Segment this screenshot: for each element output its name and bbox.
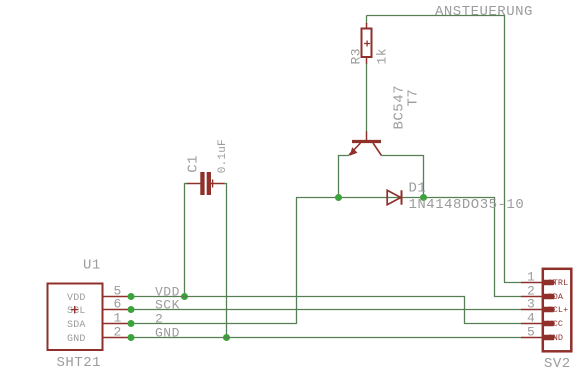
wire emitter to junction: [339, 156, 350, 198]
connector SV2 pin 3 stub: [521, 309, 543, 311]
svg-text:VCC: VCC: [548, 319, 564, 329]
resistor R3: [362, 23, 372, 64]
junction C1 VDD: [181, 293, 188, 300]
svg-text:GND: GND: [548, 333, 564, 343]
capacitor C1: [186, 172, 225, 195]
connector SV2 pin 1 stub: [521, 282, 543, 284]
svg-text:GND: GND: [155, 326, 180, 341]
svg-text:SCL+: SCL+: [548, 305, 569, 315]
svg-text:1k: 1k: [375, 48, 390, 65]
wire SCK net: [131, 309, 522, 311]
IC U1 SCL clock mark: [71, 306, 78, 313]
svg-text:0.1uF: 0.1uF: [217, 139, 229, 173]
wire diode net from net 2 riser through diode to SV2 pin 2: [297, 198, 522, 324]
svg-text:VDD: VDD: [67, 293, 86, 304]
junction GND pin: [128, 334, 135, 341]
svg-text:SDA: SDA: [67, 320, 86, 331]
svg-text:U1: U1: [83, 258, 101, 274]
connector SV2 pin 2 head and label SDA: [544, 292, 564, 302]
IC U1 pin 2 stub: [103, 337, 131, 339]
svg-text:C1: C1: [185, 155, 201, 173]
junction emitter node: [335, 194, 342, 201]
svg-text:1: 1: [114, 311, 122, 326]
svg-text:SV2: SV2: [544, 356, 571, 372]
IC U1 pin 6 stub: [103, 309, 131, 311]
svg-text:2: 2: [155, 312, 163, 327]
svg-text:6: 6: [114, 297, 122, 312]
wire R3 top: [366, 16, 368, 25]
svg-text:ANSTEUERUNG: ANSTEUERUNG: [435, 4, 533, 20]
svg-text:1N4148DO35-10: 1N4148DO35-10: [409, 197, 525, 213]
connector SV2 pin 5 head and label GND: [544, 333, 563, 343]
IC U1 SHT21 box: [48, 284, 103, 351]
junction net 2 pin: [128, 320, 135, 327]
connector SV2 pin 3 head and label SCL: [544, 305, 568, 315]
svg-text:SDA: SDA: [548, 292, 564, 302]
wire collector to junction: [382, 156, 424, 198]
svg-text:SHT21: SHT21: [57, 355, 102, 371]
wire R3 bottom to transistor base: [366, 64, 368, 133]
wire ANSTEUERUNG net from R3 top to SV2 pin 1: [367, 16, 522, 283]
connector SV2 pin 1 head and label CTRL: [544, 278, 568, 288]
svg-text:SCK: SCK: [155, 298, 180, 313]
wire VDD net to SV2 pin 4: [131, 297, 522, 324]
svg-text:2: 2: [114, 325, 122, 340]
connector SV2 pin 5 stub: [521, 337, 543, 339]
IC U1 pin 1 stub: [103, 323, 131, 325]
junction VDD pin: [128, 293, 135, 300]
wire net 2: [131, 323, 297, 325]
connector SV2 box: [543, 269, 572, 352]
svg-text:1: 1: [527, 270, 535, 285]
junction SCK pin: [128, 306, 135, 313]
transistor T7 BC547: [349, 132, 382, 156]
connector SV2 pin 2 stub: [521, 296, 543, 298]
junction collector node: [420, 194, 427, 201]
svg-text:GND: GND: [67, 334, 86, 345]
svg-text:SCL: SCL: [67, 306, 86, 317]
svg-text:4: 4: [527, 311, 535, 326]
connector SV2 pin 4 stub: [521, 323, 543, 325]
wire C1 left to VDD net: [185, 184, 188, 297]
svg-text:3: 3: [527, 297, 535, 312]
connector SV2 pin 4 head and label VCC: [544, 319, 563, 329]
svg-text:D1: D1: [409, 181, 427, 197]
junction C1 GND: [223, 334, 230, 341]
svg-text:R3: R3: [348, 48, 363, 65]
wire GND net: [131, 337, 522, 339]
diode D1: [387, 190, 401, 204]
svg-text:T7: T7: [406, 89, 422, 107]
svg-text:CTRL: CTRL: [548, 278, 569, 288]
svg-text:5: 5: [527, 325, 535, 340]
wire C1 right to GND net: [224, 184, 227, 338]
IC U1 pin 5 stub: [103, 296, 131, 298]
